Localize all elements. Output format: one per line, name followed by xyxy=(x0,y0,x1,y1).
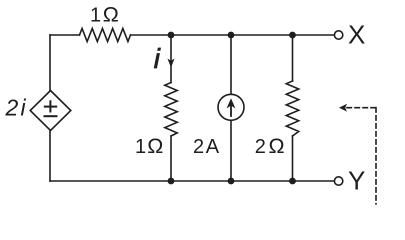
svg-text:Y: Y xyxy=(348,166,365,196)
svg-text:Ω: Ω xyxy=(103,3,119,27)
svg-text:1: 1 xyxy=(135,136,146,158)
svg-text:Ω: Ω xyxy=(147,134,163,158)
svg-text:Ω: Ω xyxy=(269,134,285,158)
svg-text:A: A xyxy=(206,136,220,158)
svg-text:1: 1 xyxy=(90,5,101,27)
svg-text:2: 2 xyxy=(193,136,204,158)
svg-text:2: 2 xyxy=(255,136,266,158)
svg-text:2i: 2i xyxy=(5,95,27,121)
svg-text:i: i xyxy=(154,43,161,74)
svg-text:X: X xyxy=(348,20,365,50)
